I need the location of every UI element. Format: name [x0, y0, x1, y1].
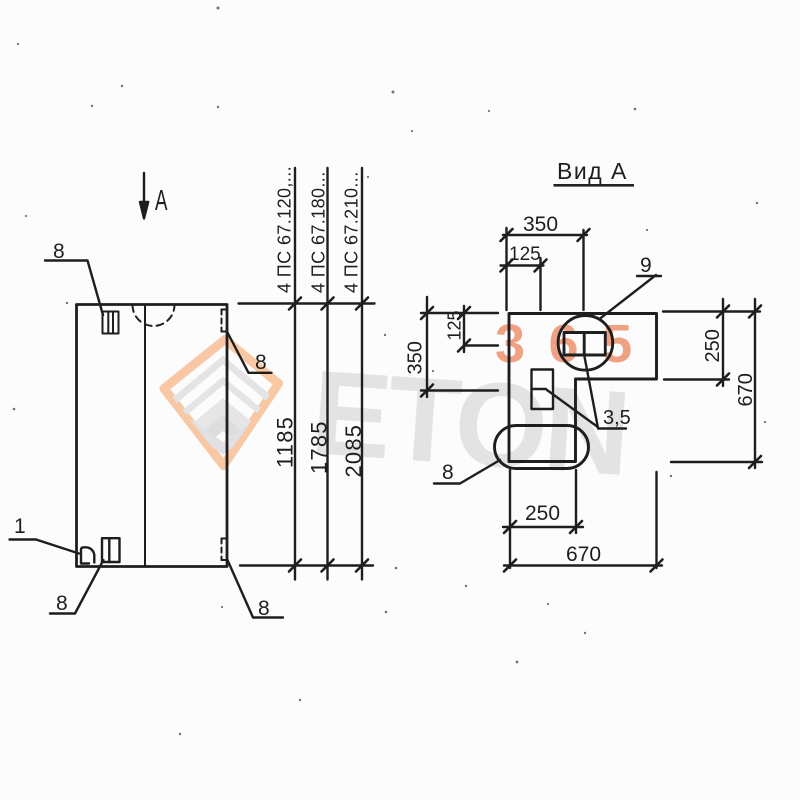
extension right bottom [655, 472, 657, 568]
svg-text:365: 365 [495, 314, 656, 374]
leader for mark 1 [10, 540, 80, 554]
svg-text:Вид А: Вид А [557, 158, 628, 184]
dim line 125 top [501, 264, 544, 266]
svg-text:3,5: 3,5 [603, 407, 631, 429]
svg-text:9: 9 [640, 254, 652, 277]
dim line 670 right [754, 299, 756, 468]
extension left bottom [509, 470, 511, 568]
svg-text:8: 8 [56, 592, 68, 615]
bottom dimensions [503, 470, 662, 568]
dim line 1785 [326, 168, 328, 580]
dim line 250 bottom [503, 526, 583, 528]
svg-text:250: 250 [702, 329, 724, 362]
corner piece (mark 1) [81, 547, 94, 563]
svg-text:4 ПС 67.120,...: 4 ПС 67.120,... [275, 166, 295, 293]
weld stadium outline (mark 8) [495, 426, 589, 469]
view A outline (gamma shape) [509, 314, 657, 462]
leader for top-left mark 8 [45, 261, 103, 316]
panel internal edge line [144, 305, 146, 567]
embed plate bottom-left (mark 8) [102, 538, 120, 562]
extension mid-left [464, 344, 498, 346]
svg-text:350: 350 [523, 213, 558, 236]
watermark outer peach band [164, 340, 279, 466]
extension lines right [663, 310, 760, 312]
svg-text:125: 125 [509, 244, 541, 265]
embed plate top-left (mark 8) [103, 312, 119, 334]
section arrow A [140, 173, 148, 219]
extension of panel bottom edge [240, 564, 373, 566]
leader for top-right mark 8 [227, 332, 272, 373]
tick marks right view [421, 229, 761, 572]
hidden plate bottom-right (mark 8, dashed) [222, 539, 227, 561]
extension lines top [505, 228, 507, 310]
svg-text:8: 8 [258, 597, 270, 620]
dashed opening arc [133, 305, 175, 326]
leader for right mark 8 [434, 460, 500, 484]
svg-text:250: 250 [525, 502, 560, 525]
dim line 350 left [426, 297, 428, 397]
dim line 670 bottom [504, 564, 662, 566]
leader for bottom-left mark 8 [50, 560, 103, 614]
dim line 1185 [294, 168, 296, 580]
dim line 350 top [503, 234, 587, 236]
svg-text:1185: 1185 [273, 416, 298, 468]
detail circle 9 [558, 316, 613, 371]
svg-text:8: 8 [442, 461, 454, 484]
right side dimensions [663, 299, 762, 468]
leaders for 3,5 [547, 355, 626, 429]
extension mid bottom [575, 470, 577, 533]
dimension column lines [239, 168, 375, 580]
slot rect 3.5 [532, 370, 554, 410]
extension of panel top edge [239, 302, 375, 304]
leader for bottom-right mark 8 [228, 560, 284, 618]
dim line 125 left [463, 306, 465, 352]
extension bottom-left [421, 389, 498, 391]
svg-text:8: 8 [53, 240, 65, 263]
svg-text:4 ПС 67.210...: 4 ПС 67.210... [342, 171, 362, 293]
dim line 2085 [361, 168, 363, 580]
top dimensions [501, 228, 588, 310]
svg-text:2085: 2085 [341, 424, 366, 478]
svg-text:670: 670 [735, 373, 757, 406]
tick marks on column lines [289, 298, 368, 572]
svg-text:А: А [155, 185, 168, 217]
svg-text:125: 125 [445, 310, 465, 340]
window divider [583, 333, 586, 356]
extension top-left [421, 312, 498, 314]
watermark logo E chevrons [146, 356, 300, 496]
hidden plate top-right (mark 8, dashed) [222, 310, 227, 332]
left side dimensions [421, 297, 498, 397]
dim line 250 right [722, 299, 724, 386]
panel outline rectangle [77, 305, 228, 567]
svg-text:350: 350 [405, 341, 427, 374]
title underline [554, 184, 635, 187]
svg-text:1785: 1785 [307, 420, 332, 474]
leader for label 9 [601, 275, 662, 318]
window in circle [564, 333, 605, 356]
svg-text:670: 670 [566, 543, 601, 566]
svg-text:8: 8 [255, 351, 267, 374]
slot inner line [532, 388, 547, 390]
svg-text:1: 1 [14, 515, 26, 538]
svg-text:4 ПС 67.180...: 4 ПС 67.180... [309, 171, 329, 293]
